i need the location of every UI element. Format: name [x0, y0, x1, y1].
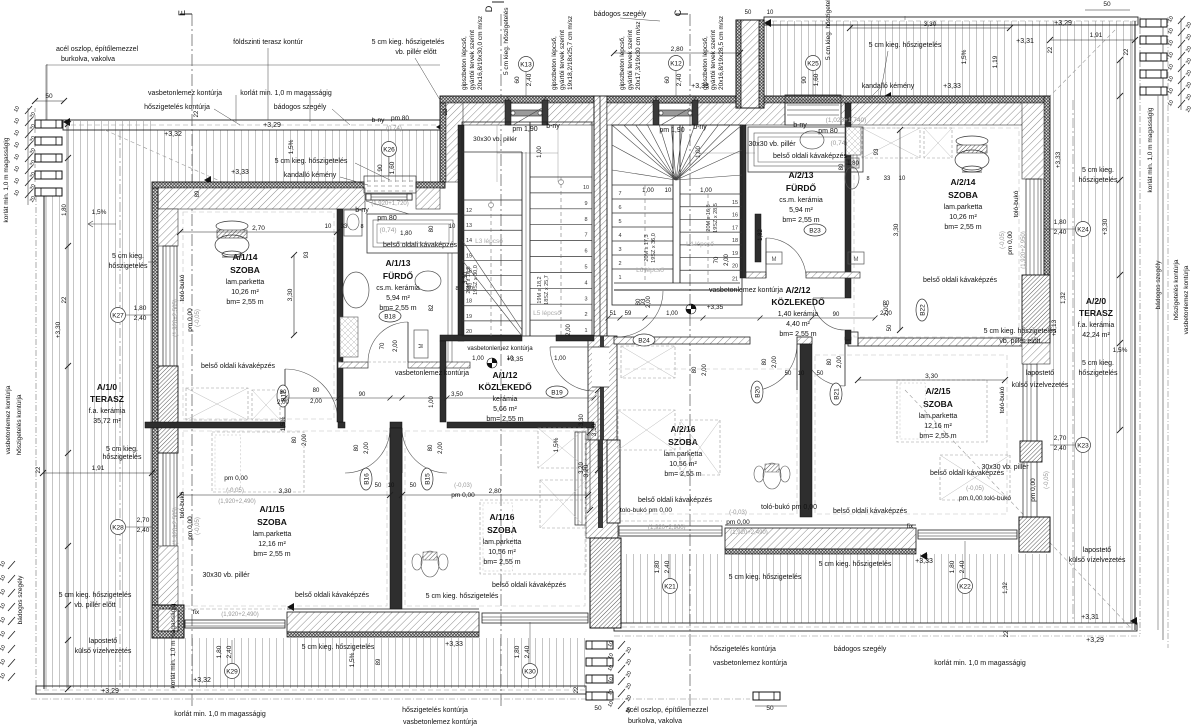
svg-text:hőszigetelés kontúrja: hőszigetelés kontúrja: [144, 104, 210, 111]
svg-text:80: 80: [827, 358, 833, 365]
svg-text:+3,29: +3,29: [101, 688, 119, 695]
svg-text:2,00: 2,00: [566, 324, 572, 336]
svg-text:+3,33: +3,33: [691, 83, 709, 90]
svg-text:7: 7: [584, 233, 587, 239]
svg-text:+3,33: +3,33: [231, 169, 249, 176]
svg-text:vb. pillér előtt: vb. pillér előtt: [74, 602, 115, 609]
svg-text:földszinti terasz kontúr: földszinti terasz kontúr: [233, 39, 303, 46]
svg-text:1,00: 1,00: [537, 146, 543, 158]
svg-text:+3,32: +3,32: [193, 677, 211, 684]
svg-text:2,00: 2,00: [364, 442, 370, 454]
svg-text:80: 80: [280, 390, 287, 396]
svg-text:8: 8: [360, 224, 363, 230]
svg-text:SZOBA: SZOBA: [230, 265, 260, 275]
svg-text:A/1/15: A/1/15: [259, 504, 284, 514]
svg-text:gyártói tervek szerint: gyártói tervek szerint: [710, 30, 717, 90]
svg-text:A/2/14: A/2/14: [950, 177, 975, 187]
svg-text:5 cm kieg.: 5 cm kieg.: [112, 253, 144, 260]
svg-text:(-0,05): (-0,05): [195, 517, 201, 535]
svg-text:10: 10: [665, 188, 672, 194]
svg-text:42,24 m²: 42,24 m²: [1082, 332, 1110, 339]
svg-text:KÖZLEKEDŐ: KÖZLEKEDŐ: [478, 381, 532, 392]
svg-text:M: M: [419, 344, 425, 349]
svg-text:1,5%: 1,5%: [961, 49, 968, 64]
svg-text:bm= 2,55 m: bm= 2,55 m: [483, 559, 520, 566]
svg-text:cs.m. kerámia: cs.m. kerámia: [779, 197, 823, 204]
svg-text:1,40 kerámia: 1,40 kerámia: [778, 311, 819, 318]
svg-text:10: 10: [583, 185, 589, 191]
svg-text:L5 lépcső: L5 lépcső: [533, 310, 561, 317]
svg-text:f.a. kerámia: f.a. kerámia: [1078, 322, 1115, 329]
svg-text:pm 80: pm 80: [377, 215, 397, 222]
svg-text:20x17,3/19x30 cm m/sz: 20x17,3/19x30 cm m/sz: [635, 21, 642, 90]
svg-text:5 cm kieg. hőszigetelés: 5 cm kieg. hőszigetelés: [302, 644, 375, 651]
svg-text:2,40: 2,40: [664, 560, 671, 573]
svg-text:(-0,05): (-0,05): [195, 309, 201, 327]
svg-text:1,80: 1,80: [847, 161, 859, 167]
svg-text:gipszbeton lépcső,: gipszbeton lépcső,: [461, 36, 468, 90]
svg-text:8: 8: [584, 217, 587, 223]
svg-text:toló-bukó pm 0,00: toló-bukó pm 0,00: [761, 504, 817, 511]
svg-text:toló-bukó: toló-bukó: [1013, 190, 1020, 217]
svg-text:1,00: 1,00: [666, 311, 678, 317]
svg-text:(1,920+2,490): (1,920+2,490): [221, 612, 259, 618]
svg-text:93: 93: [304, 251, 310, 258]
svg-text:22: 22: [62, 296, 68, 303]
svg-text:hőszigetelés kontúrja: hőszigetelés kontúrja: [16, 394, 23, 455]
svg-text:hőszigetelés kontúrja: hőszigetelés kontúrja: [402, 707, 468, 714]
svg-text:korlát min. 1,0 m magasságig: korlát min. 1,0 m magasságig: [170, 603, 177, 688]
svg-text:20: 20: [732, 264, 738, 270]
svg-text:B16: B16: [363, 473, 370, 485]
svg-text:3,30: 3,30: [287, 288, 294, 301]
svg-text:vasbetonlemez kontúrja: vasbetonlemez kontúrja: [5, 385, 12, 454]
svg-text:4: 4: [618, 233, 621, 239]
svg-text:8: 8: [866, 176, 869, 182]
svg-text:1,00: 1,00: [472, 356, 484, 362]
svg-text:18SZ x 25,7: 18SZ x 25,7: [544, 275, 550, 305]
svg-text:3: 3: [584, 296, 587, 302]
svg-text:10,56 m²: 10,56 m²: [669, 461, 697, 468]
svg-text:pm 80: pm 80: [391, 115, 409, 122]
svg-text:(1,920+2,505): (1,920+2,505): [173, 299, 179, 337]
svg-text:10: 10: [388, 483, 395, 489]
svg-text:1,80: 1,80: [400, 231, 412, 237]
svg-text:külső vízelvezetés: külső vízelvezetés: [75, 648, 132, 655]
svg-text:2,40: 2,40: [137, 527, 150, 534]
svg-text:4,40 m²: 4,40 m²: [786, 321, 810, 328]
svg-text:korlát min. 1,0 m magasságig: korlát min. 1,0 m magasságig: [240, 90, 332, 97]
svg-text:1,5%: 1,5%: [288, 139, 295, 154]
svg-text:belső oldali kávaképzés: belső oldali kávaképzés: [638, 497, 712, 504]
svg-text:3,30: 3,30: [893, 223, 900, 236]
svg-text:20: 20: [467, 286, 473, 292]
svg-text:lapostető: lapostető: [89, 638, 118, 645]
svg-text:14: 14: [466, 238, 472, 244]
svg-text:20: 20: [466, 329, 472, 335]
svg-text:15: 15: [732, 200, 738, 206]
svg-text:5,94 m²: 5,94 m²: [789, 207, 813, 214]
svg-text:5 cm kieg.: 5 cm kieg.: [1082, 360, 1114, 367]
svg-text:19: 19: [466, 314, 472, 320]
svg-text:pm 0,00: pm 0,00: [1030, 478, 1037, 502]
svg-text:3,30: 3,30: [924, 21, 937, 28]
svg-text:59: 59: [625, 311, 632, 317]
svg-text:10: 10: [767, 10, 774, 16]
svg-text:(0,74): (0,74): [831, 140, 848, 147]
svg-text:19SZ x 28,5: 19SZ x 28,5: [713, 203, 719, 233]
svg-text:50: 50: [594, 705, 602, 712]
svg-text:gyártói tervek szerint: gyártói tervek szerint: [559, 30, 566, 90]
svg-text:20x16,8/19x30,0 cm m/sz: 20x16,8/19x30,0 cm m/sz: [477, 16, 484, 90]
svg-text:13: 13: [466, 223, 472, 229]
svg-text:3,50: 3,50: [451, 392, 463, 398]
svg-text:2,40: 2,40: [226, 645, 233, 658]
svg-text:60: 60: [514, 76, 521, 84]
svg-text:vasbetonlemez kontúrja: vasbetonlemez kontúrja: [709, 287, 783, 294]
svg-text:18: 18: [466, 299, 472, 305]
svg-text:22: 22: [574, 686, 580, 693]
svg-text:1,5%: 1,5%: [280, 416, 287, 431]
svg-text:belső oldali kávaképzés: belső oldali kávaképzés: [492, 582, 566, 589]
svg-text:80: 80: [292, 436, 298, 443]
svg-text:2,40: 2,40: [524, 645, 531, 658]
svg-text:70: 70: [380, 342, 386, 349]
svg-text:K24: K24: [1077, 226, 1089, 233]
svg-text:(-0,05): (-0,05): [1044, 471, 1050, 489]
svg-text:1: 1: [584, 328, 587, 334]
svg-text:K28: K28: [112, 524, 124, 531]
svg-text:5 cm kieg. hőszigetelés: 5 cm kieg. hőszigetelés: [869, 42, 942, 49]
svg-text:B23: B23: [809, 227, 821, 234]
svg-text:10: 10: [798, 371, 805, 377]
svg-text:korlát min. 1,0 m magasságig: korlát min. 1,0 m magasságig: [934, 660, 1026, 667]
svg-text:lam.parketta: lam.parketta: [483, 539, 522, 546]
svg-text:22: 22: [1048, 46, 1054, 53]
svg-text:gipszbeton lépcső,: gipszbeton lépcső,: [619, 36, 626, 90]
svg-text:2,80: 2,80: [671, 46, 684, 53]
svg-text:5: 5: [618, 219, 621, 225]
svg-text:3,30: 3,30: [925, 373, 938, 380]
svg-text:B18: B18: [384, 313, 396, 320]
svg-text:1,82: 1,82: [758, 229, 764, 241]
svg-text:K26: K26: [383, 146, 395, 153]
svg-text:burkolva, vakolva: burkolva, vakolva: [61, 56, 115, 63]
svg-text:16: 16: [732, 213, 738, 219]
svg-text:(1,920+2,490): (1,920+2,490): [218, 499, 256, 505]
svg-text:TERASZ: TERASZ: [1079, 308, 1113, 318]
svg-text:SZOBA: SZOBA: [487, 525, 517, 535]
svg-text:hőszigetelés kontúrja: hőszigetelés kontúrja: [1173, 259, 1180, 320]
svg-text:+3,33: +3,33: [445, 641, 463, 648]
svg-text:80: 80: [839, 163, 845, 170]
svg-text:3,30: 3,30: [279, 488, 292, 495]
svg-text:A/2/12: A/2/12: [785, 285, 810, 295]
svg-text:+3,33: +3,33: [1055, 151, 1062, 168]
svg-text:1,60: 1,60: [813, 73, 820, 86]
svg-text:b-ny: b-ny: [372, 117, 385, 124]
svg-text:5 cm kieg.: 5 cm kieg.: [1082, 167, 1114, 174]
svg-text:vasbetonlemez kontúrja: vasbetonlemez kontúrja: [395, 370, 469, 377]
svg-text:bádogos szegély: bádogos szegély: [834, 646, 887, 653]
svg-text:10,26 m²: 10,26 m²: [231, 289, 259, 296]
svg-text:K12: K12: [670, 60, 682, 67]
svg-text:pm 0,00: pm 0,00: [187, 516, 194, 540]
svg-text:gyártói tervek szerint: gyártói tervek szerint: [627, 30, 634, 90]
svg-text:vasbetonlemez kontúrja: vasbetonlemez kontúrja: [467, 345, 533, 352]
svg-text:22: 22: [443, 108, 449, 115]
svg-text:12,16 m²: 12,16 m²: [258, 541, 286, 548]
svg-text:5 cm kieg. hőszigetelés: 5 cm kieg. hőszigetelés: [984, 328, 1057, 335]
svg-text:1,80: 1,80: [134, 305, 147, 312]
svg-text:b-ny: b-ny: [793, 122, 807, 129]
svg-text:50: 50: [1103, 1, 1111, 8]
svg-text:kerámia: kerámia: [493, 396, 518, 403]
svg-text:hőszigetelés: hőszigetelés: [109, 263, 148, 270]
svg-text:2,40: 2,40: [1054, 445, 1067, 452]
svg-text:D: D: [484, 5, 494, 12]
svg-text:toló-bukó: toló-bukó: [999, 386, 1006, 413]
svg-text:18: 18: [732, 238, 738, 244]
svg-text:K30: K30: [524, 668, 536, 675]
svg-text:K13: K13: [520, 61, 532, 68]
svg-text:30x30 vb. pillér: 30x30 vb. pillér: [473, 136, 518, 143]
svg-text:80: 80: [354, 444, 360, 451]
svg-text:1,00: 1,00: [700, 188, 712, 194]
svg-text:50: 50: [375, 483, 382, 489]
svg-text:(1,920+2,505): (1,920+2,505): [173, 507, 179, 545]
svg-text:10,56 m²: 10,56 m²: [488, 549, 516, 556]
svg-text:hőszigetelés: hőszigetelés: [1079, 177, 1118, 184]
svg-text:b-ny: b-ny: [693, 124, 707, 131]
svg-text:2,00: 2,00: [310, 399, 322, 405]
svg-text:20M x 16,8: 20M x 16,8: [706, 204, 712, 231]
svg-text:30x30 vb. pillér: 30x30 vb. pillér: [981, 464, 1029, 471]
svg-text:SZOBA: SZOBA: [257, 517, 287, 527]
svg-text:pm 0,00: pm 0,00: [187, 308, 194, 332]
svg-text:gipszbeton lépcső,: gipszbeton lépcső,: [551, 36, 558, 90]
svg-text:80: 80: [313, 388, 320, 394]
svg-text:22: 22: [36, 466, 42, 473]
svg-text:gyártói tervek szerint: gyártói tervek szerint: [469, 30, 476, 90]
svg-text:vb. pillér előtt: vb. pillér előtt: [999, 338, 1040, 345]
svg-text:1,5%: 1,5%: [553, 437, 560, 452]
svg-text:1,80: 1,80: [1054, 219, 1067, 226]
svg-text:burkolva, vakolva: burkolva, vakolva: [628, 718, 682, 725]
svg-text:belső oldali kávaképzés: belső oldali kávaképzés: [930, 470, 1004, 477]
svg-text:lam.parketta: lam.parketta: [919, 413, 958, 420]
svg-text:3,30: 3,30: [579, 414, 585, 426]
svg-text:gipszbeton lépcső,: gipszbeton lépcső,: [702, 36, 709, 90]
svg-text:2,00: 2,00: [884, 304, 890, 316]
svg-text:2,00: 2,00: [302, 434, 308, 446]
svg-text:2,00: 2,00: [702, 364, 708, 376]
svg-text:korlát min. 1,0 m magasságig: korlát min. 1,0 m magasságig: [174, 711, 266, 718]
svg-text:hőszigetelés: hőszigetelés: [103, 454, 142, 461]
svg-text:19M x 18,2: 19M x 18,2: [537, 276, 543, 303]
svg-text:2,40: 2,40: [1054, 229, 1067, 236]
svg-text:tolo-bukó pm 0,00: tolo-bukó pm 0,00: [620, 507, 672, 514]
svg-text:bm= 2,55 m: bm= 2,55 m: [944, 224, 981, 231]
svg-text:80: 80: [762, 358, 768, 365]
svg-text:12: 12: [466, 208, 472, 214]
svg-text:10: 10: [507, 356, 514, 362]
svg-text:+3,29: +3,29: [1054, 20, 1072, 27]
svg-text:f.a. kerámia: f.a. kerámia: [89, 408, 126, 415]
svg-text:pm 0,00: pm 0,00: [726, 519, 750, 526]
svg-text:1,80: 1,80: [514, 645, 521, 658]
svg-text:70: 70: [714, 256, 720, 263]
svg-text:bádogos szegély: bádogos szegély: [1155, 260, 1162, 310]
svg-text:1,32: 1,32: [1003, 582, 1009, 594]
svg-text:(1,920+2,490): (1,920+2,490): [730, 530, 768, 536]
svg-text:6: 6: [584, 249, 587, 255]
svg-text:A/2/15: A/2/15: [925, 386, 950, 396]
svg-text:6: 6: [618, 205, 621, 211]
svg-text:vb. pillér előtt: vb. pillér előtt: [395, 49, 436, 56]
svg-text:1,32: 1,32: [1061, 292, 1067, 304]
svg-text:5 cm kieg. hőszigetelés: 5 cm kieg. hőszigetelés: [729, 574, 802, 581]
svg-text:2,40: 2,40: [526, 73, 533, 86]
svg-text:(0,74): (0,74): [380, 227, 397, 234]
svg-text:5 cm kieg. hőszigetelés: 5 cm kieg. hőszigetelés: [372, 39, 445, 46]
svg-text:belső oldali kávaképzés: belső oldali kávaképzés: [773, 153, 847, 160]
svg-text:(-0,05): (-0,05): [226, 488, 244, 494]
svg-text:2,70: 2,70: [252, 225, 265, 232]
svg-text:A/2/13: A/2/13: [788, 170, 813, 180]
svg-text:A/1/16: A/1/16: [489, 512, 514, 522]
svg-text:2,80: 2,80: [489, 488, 502, 495]
svg-text:+3,31: +3,31: [1016, 38, 1034, 45]
svg-text:SZOBA: SZOBA: [948, 190, 978, 200]
svg-text:2,00: 2,00: [724, 254, 730, 266]
svg-text:10: 10: [449, 224, 456, 230]
svg-text:cs.m. kerámia: cs.m. kerámia: [376, 285, 420, 292]
svg-text:belső oldali kávaképzés: belső oldali kávaképzés: [201, 363, 275, 370]
svg-text:2,00: 2,00: [837, 356, 843, 368]
svg-text:A/2/0: A/2/0: [1086, 296, 1107, 306]
svg-text:4: 4: [584, 280, 587, 286]
svg-text:2,00: 2,00: [393, 340, 399, 352]
svg-text:82: 82: [429, 304, 435, 311]
svg-text:89: 89: [376, 658, 382, 665]
svg-text:pm 1,90: pm 1,90: [512, 126, 537, 133]
svg-text:FÜRDŐ: FÜRDŐ: [786, 182, 817, 193]
svg-text:2,00: 2,00: [438, 442, 444, 454]
svg-text:(0,74): (0,74): [386, 126, 402, 132]
svg-text:bm= 2,55 m: bm= 2,55 m: [782, 217, 819, 224]
svg-text:KÖZLEKEDŐ: KÖZLEKEDŐ: [771, 296, 825, 307]
svg-text:3,20: 3,20: [579, 462, 585, 474]
svg-text:5 cm kieg. hőszigetelés: 5 cm kieg. hőszigetelés: [426, 593, 499, 600]
svg-text:1: 1: [618, 275, 621, 281]
svg-text:lapostető: lapostető: [1026, 370, 1055, 377]
svg-text:35,72 m²: 35,72 m²: [93, 418, 121, 425]
svg-text:7: 7: [618, 191, 621, 197]
svg-text:bm= 2,55 m: bm= 2,55 m: [664, 471, 701, 478]
svg-text:89: 89: [195, 190, 201, 197]
svg-text:C: C: [673, 9, 683, 16]
svg-text:bádogos szegély: bádogos szegély: [594, 11, 647, 18]
svg-text:vasbetonlemez kontúrja: vasbetonlemez kontúrja: [403, 719, 477, 726]
svg-text:50: 50: [45, 93, 53, 100]
svg-text:19: 19: [732, 251, 738, 257]
svg-text:80: 80: [429, 225, 435, 232]
svg-text:B24: B24: [638, 337, 650, 344]
svg-text:1,80: 1,80: [949, 560, 956, 573]
svg-text:+3,32: +3,32: [164, 131, 182, 138]
svg-text:50: 50: [887, 324, 893, 331]
svg-text:acél oszlop, építőlemezzel: acél oszlop, építőlemezzel: [56, 46, 139, 53]
svg-text:93: 93: [874, 148, 880, 155]
svg-text:8: 8: [455, 286, 458, 292]
svg-text:2,40: 2,40: [134, 315, 147, 322]
svg-text:hőszigetelés: hőszigetelés: [1079, 370, 1118, 377]
svg-text:1,00: 1,00: [554, 356, 566, 362]
svg-text:2,00: 2,00: [772, 356, 778, 368]
svg-text:L6 lépcső: L6 lépcső: [636, 267, 664, 274]
svg-text:külső vízelvezetés: külső vízelvezetés: [1069, 557, 1126, 564]
svg-text:K29: K29: [226, 668, 238, 675]
svg-text:belső oldali kávaképzés: belső oldali kávaképzés: [923, 277, 997, 284]
svg-text:toló-bukó: toló-bukó: [179, 274, 186, 301]
svg-text:lapostető: lapostető: [1083, 547, 1112, 554]
svg-text:(-0,03): (-0,03): [729, 510, 747, 516]
svg-text:B15: B15: [424, 473, 431, 485]
svg-text:20M x 17,3: 20M x 17,3: [644, 234, 650, 261]
svg-text:K27: K27: [112, 312, 124, 319]
svg-text:vasbetonlemez kontúrja: vasbetonlemez kontúrja: [1183, 265, 1190, 334]
svg-text:+3,29: +3,29: [1086, 637, 1104, 644]
svg-text:60: 60: [664, 76, 671, 84]
svg-text:5,66 m²: 5,66 m²: [493, 406, 517, 413]
svg-text:2,40: 2,40: [959, 560, 966, 573]
svg-text:5: 5: [584, 265, 587, 271]
svg-text:1,5%: 1,5%: [349, 652, 356, 667]
svg-text:80: 80: [692, 366, 698, 373]
svg-text:1,00: 1,00: [429, 396, 435, 408]
svg-text:pm 0,00: pm 0,00: [451, 492, 475, 499]
svg-text:1,5%: 1,5%: [92, 209, 107, 216]
svg-text:(-0,05): (-0,05): [1000, 231, 1006, 249]
svg-text:pm 0,00: pm 0,00: [224, 475, 248, 482]
svg-text:1,00: 1,00: [642, 188, 654, 194]
svg-text:5 cm kieg. hőszigetelés: 5 cm kieg. hőszigetelés: [275, 158, 348, 165]
svg-text:K25: K25: [807, 60, 819, 67]
svg-text:+3,30: +3,30: [55, 321, 62, 338]
svg-text:5 cm kieg. hőszigetele: 5 cm kieg. hőszigetele: [825, 0, 832, 60]
svg-text:1,80: 1,80: [216, 645, 223, 658]
svg-text:10: 10: [325, 224, 332, 230]
svg-text:90: 90: [377, 164, 384, 172]
svg-text:E: E: [177, 10, 187, 16]
svg-text:pm 1,90: pm 1,90: [659, 127, 684, 134]
svg-text:33: 33: [341, 224, 348, 230]
svg-text:19x18,2/18x25,7 cm m/sz: 19x18,2/18x25,7 cm m/sz: [567, 16, 574, 90]
svg-text:50: 50: [785, 371, 792, 377]
svg-text:10,26 m²: 10,26 m²: [949, 214, 977, 221]
svg-text:B21: B21: [833, 388, 840, 400]
svg-text:+3,33: +3,33: [943, 83, 961, 90]
svg-text:A/1/13: A/1/13: [385, 258, 410, 268]
svg-text:1,19: 1,19: [992, 55, 999, 68]
svg-text:90: 90: [359, 392, 366, 398]
svg-text:belső oldali kávaképzés: belső oldali kávaképzés: [383, 242, 457, 249]
svg-text:B20: B20: [754, 386, 761, 398]
svg-text:19SZ x 30,0: 19SZ x 30,0: [473, 265, 479, 295]
svg-text:2,40: 2,40: [676, 73, 683, 86]
svg-text:(1,020+1,740): (1,020+1,740): [826, 117, 867, 124]
